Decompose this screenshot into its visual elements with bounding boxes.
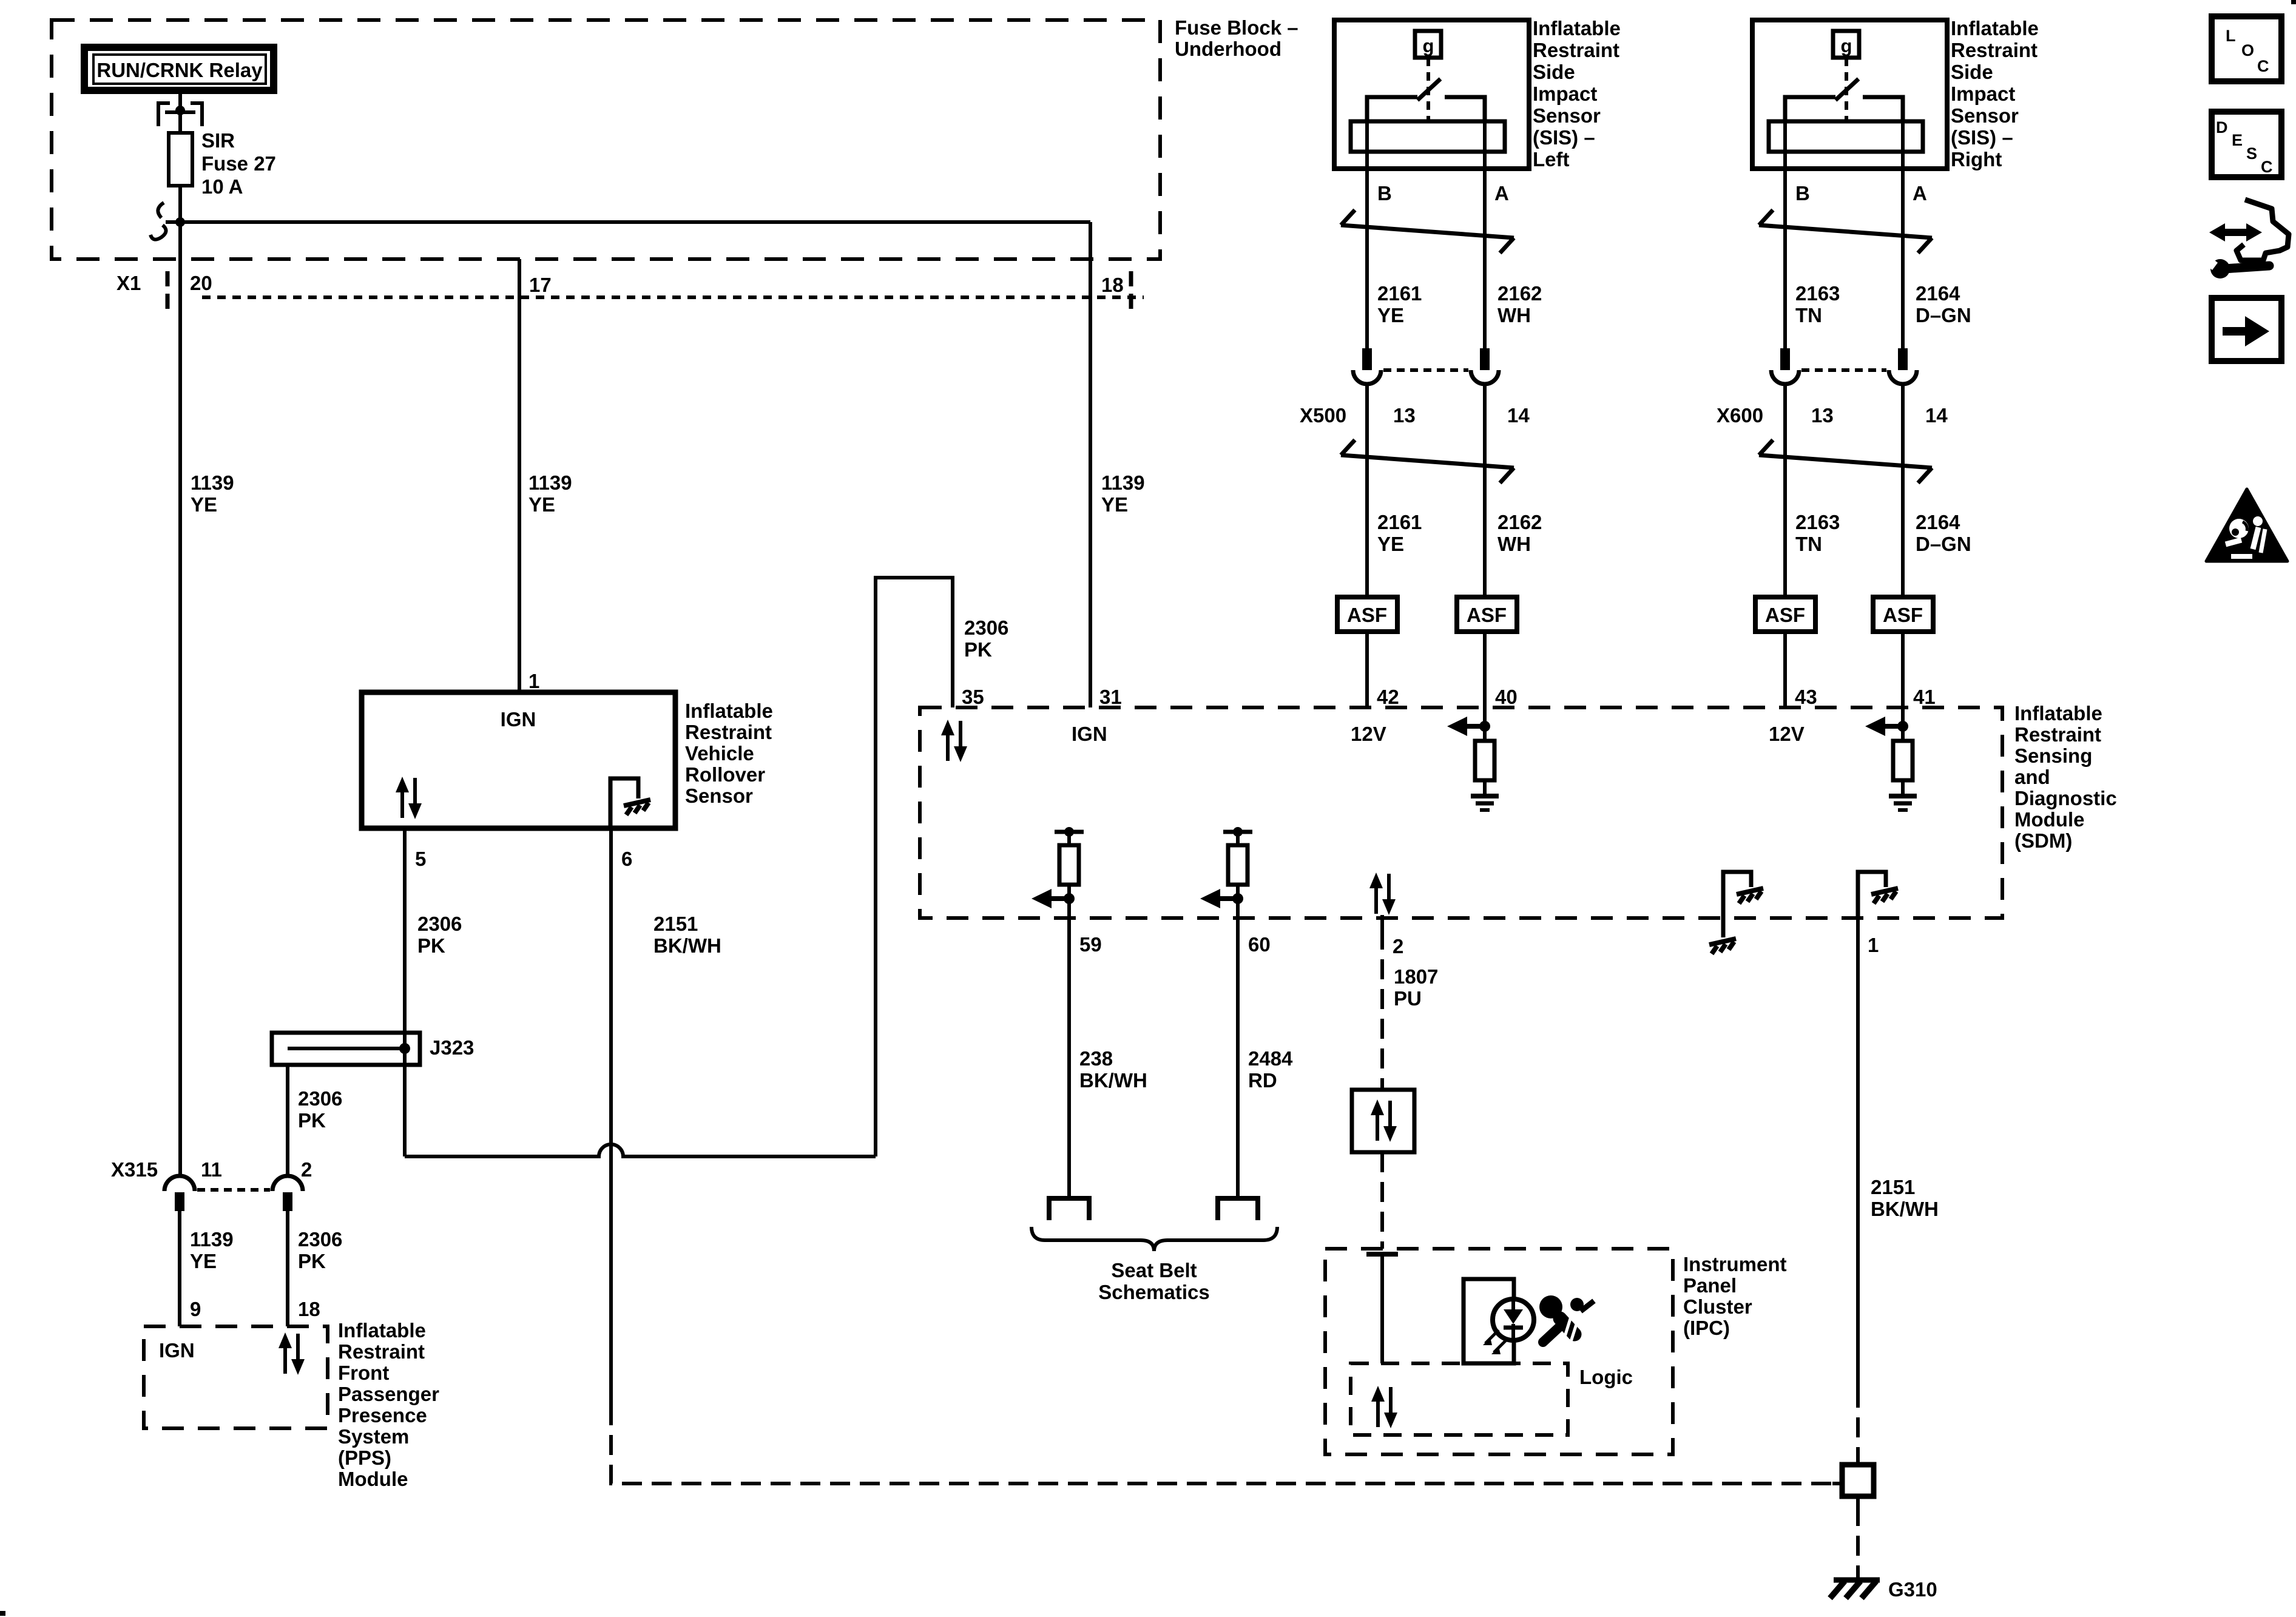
- svg-text:1139: 1139: [528, 471, 572, 494]
- svg-text:238: 238: [1079, 1047, 1113, 1070]
- svg-text:Passenger: Passenger: [338, 1383, 439, 1405]
- svg-text:TN: TN: [1795, 533, 1822, 555]
- svg-text:1807: 1807: [1394, 965, 1438, 988]
- svg-text:Inflatable: Inflatable: [2014, 702, 2102, 724]
- svg-text:Side: Side: [1951, 61, 1993, 83]
- svg-text:C: C: [2257, 57, 2269, 75]
- wire 2151 BK/WH from pin 6: [611, 828, 1842, 1484]
- svg-text:Underhood: Underhood: [1175, 38, 1281, 60]
- X600 connector: [1717, 348, 1948, 427]
- svg-text:2164: 2164: [1916, 282, 1960, 305]
- node: junction dot: [175, 217, 185, 227]
- break symbol 1 left: [1341, 210, 1514, 253]
- svg-text:E: E: [2232, 131, 2243, 149]
- svg-text:ASF: ASF: [1347, 604, 1387, 626]
- svg-text:2: 2: [301, 1158, 312, 1181]
- svg-text:X500: X500: [1300, 404, 1346, 427]
- svg-text:Instrument: Instrument: [1683, 1253, 1787, 1275]
- svg-text:20: 20: [190, 272, 212, 294]
- label PPS: [338, 1319, 439, 1490]
- svg-text:Panel: Panel: [1683, 1274, 1737, 1297]
- wire 1807 PU dashed: [1382, 915, 1438, 1090]
- icon arrow wrench: [2200, 200, 2289, 279]
- svg-text:ASF: ASF: [1467, 604, 1507, 626]
- svg-text:Restraint: Restraint: [1533, 39, 1619, 61]
- svg-text:PK: PK: [298, 1109, 326, 1132]
- relay contact: [158, 94, 202, 133]
- svg-text:D–GN: D–GN: [1916, 533, 1971, 555]
- SIS left sensor box: [1334, 20, 1529, 348]
- svg-text:60: 60: [1248, 933, 1271, 956]
- IGN vehicle rollover sensor box: [362, 692, 675, 828]
- svg-text:Schematics: Schematics: [1098, 1281, 1209, 1303]
- svg-text:2151: 2151: [653, 913, 698, 935]
- svg-text:IGN: IGN: [501, 708, 536, 731]
- svg-text:YE: YE: [1377, 304, 1404, 326]
- SDM pin2 updown arrows: [1369, 873, 1396, 915]
- svg-text:C: C: [2261, 158, 2273, 176]
- wire 2306 PK horizontal to SDM pin 35: [405, 578, 953, 1156]
- svg-text:13: 13: [1393, 404, 1416, 427]
- svg-text:14: 14: [1925, 404, 1948, 427]
- svg-text:1139: 1139: [191, 471, 234, 494]
- svg-text:PK: PK: [964, 638, 992, 661]
- label SDM: [2014, 702, 2117, 852]
- svg-text:PK: PK: [298, 1250, 326, 1272]
- LED driver box: [1464, 1279, 1514, 1363]
- ASF shorting bar connector left pair: [1337, 597, 1517, 632]
- svg-text:g: g: [1841, 35, 1852, 56]
- pin 60 wire 2484 RD: [1218, 917, 1293, 1220]
- svg-text:IGN: IGN: [159, 1339, 195, 1362]
- svg-text:G310: G310: [1888, 1578, 1937, 1601]
- svg-text:Inflatable: Inflatable: [338, 1319, 426, 1342]
- junction J323: [272, 1033, 474, 1065]
- svg-text:Left: Left: [1533, 148, 1570, 170]
- fuse block underhood dashed box: [52, 20, 1160, 259]
- svg-text:6: 6: [621, 848, 632, 870]
- svg-text:Fuse Block –: Fuse Block –: [1175, 16, 1298, 39]
- svg-text:2163: 2163: [1795, 282, 1840, 305]
- svg-text:Inflatable: Inflatable: [685, 700, 773, 722]
- break symbol 2 left: [1341, 440, 1514, 483]
- svg-text:Module: Module: [338, 1468, 408, 1490]
- svg-text:18: 18: [298, 1298, 320, 1320]
- svg-text:5: 5: [415, 848, 426, 870]
- svg-text:Inflatable: Inflatable: [1951, 17, 2039, 39]
- svg-text:14: 14: [1507, 404, 1530, 427]
- svg-text:2151: 2151: [1871, 1176, 1915, 1198]
- svg-text:2: 2: [1393, 935, 1403, 957]
- svg-text:13: 13: [1811, 404, 1834, 427]
- svg-text:Sensor: Sensor: [1533, 104, 1601, 127]
- svg-text:PU: PU: [1394, 987, 1422, 1010]
- wire 2306 PK X315 to PPS: [288, 1211, 342, 1326]
- wire 1139 YE X315 to PPS: [180, 1211, 234, 1326]
- icon arrow box: [2212, 298, 2281, 361]
- svg-text:Inflatable: Inflatable: [1533, 17, 1621, 39]
- svg-text:2162: 2162: [1497, 282, 1542, 305]
- svg-text:Sensor: Sensor: [685, 785, 753, 807]
- svg-text:12V: 12V: [1769, 723, 1805, 745]
- SDM pin 1 ground bracket: [1858, 872, 1898, 956]
- svg-text:41: 41: [1913, 686, 1936, 708]
- SDM case ground: [1709, 872, 1763, 954]
- svg-text:2306: 2306: [964, 616, 1008, 639]
- svg-text:2164: 2164: [1916, 511, 1960, 533]
- svg-text:Cluster: Cluster: [1683, 1295, 1752, 1318]
- SDM updown arrows at pin35: [941, 720, 967, 762]
- svg-text:WH: WH: [1497, 304, 1531, 326]
- svg-text:Restraint: Restraint: [2014, 723, 2101, 746]
- wire labels 2161 YE / 2162 WH lower: [1377, 511, 1542, 555]
- wire 2306 PK J323 to X315: [288, 1065, 342, 1176]
- svg-text:2306: 2306: [298, 1087, 342, 1110]
- svg-text:RD: RD: [1248, 1069, 1277, 1092]
- svg-text:Right: Right: [1951, 148, 2002, 170]
- svg-text:31: 31: [1099, 686, 1122, 708]
- svg-text:40: 40: [1495, 686, 1518, 708]
- break symbol 2 right: [1759, 440, 1932, 483]
- pin 59 wire 238 BK/WH: [1049, 917, 1147, 1220]
- svg-text:Impact: Impact: [1951, 83, 2015, 105]
- svg-text:X315: X315: [111, 1158, 158, 1181]
- svg-text:B: B: [1377, 182, 1392, 204]
- page artifact mark top-right: [2291, 0, 2296, 4]
- ground G310: [1830, 1578, 1937, 1601]
- seat belt brace: [1032, 1227, 1277, 1251]
- svg-text:1139: 1139: [1101, 471, 1145, 494]
- svg-text:Rollover: Rollover: [685, 763, 765, 786]
- svg-text:2163: 2163: [1795, 511, 1840, 533]
- wire 1139 YE pin 17: [518, 259, 521, 690]
- svg-text:D: D: [2216, 118, 2228, 137]
- svg-text:Sensor: Sensor: [1951, 104, 2019, 127]
- svg-text:2484: 2484: [1248, 1047, 1293, 1070]
- svg-text:A: A: [1913, 182, 1927, 204]
- wire 2306 PK pin5 to J323 to corner: [403, 828, 407, 1156]
- svg-text:17: 17: [529, 274, 552, 296]
- svg-text:RUN/CRNK Relay: RUN/CRNK Relay: [96, 59, 263, 81]
- wire labels 2161 YE / 2162 WH upper: [1377, 282, 1542, 326]
- entry bar at IPC: [1366, 1252, 1398, 1257]
- wires below X500: [1365, 384, 1369, 597]
- svg-text:System: System: [338, 1425, 409, 1448]
- svg-text:Sensing: Sensing: [2014, 744, 2092, 767]
- svg-text:SIR: SIR: [201, 129, 235, 152]
- svg-text:2162: 2162: [1497, 511, 1542, 533]
- wire: fuse to junction: [178, 186, 182, 222]
- svg-text:Restraint: Restraint: [338, 1340, 425, 1363]
- svg-text:(SIS) –: (SIS) –: [1533, 126, 1595, 149]
- relay K: RUN/CRNK Relay: [84, 47, 274, 90]
- icon LOC: [2212, 16, 2281, 81]
- LED light arrows: [1483, 1330, 1507, 1354]
- label: Fuse Block Underhood: [1175, 16, 1298, 60]
- svg-text:11: 11: [201, 1158, 222, 1181]
- svg-text:B: B: [1795, 182, 1810, 204]
- svg-text:O: O: [2241, 41, 2254, 59]
- wire 1139 YE pin 20: [178, 222, 182, 1176]
- X500 connector: [1300, 348, 1530, 427]
- page artifact mark bottom-left: [0, 1611, 5, 1616]
- svg-text:ASF: ASF: [1883, 604, 1923, 626]
- svg-text:Side: Side: [1533, 61, 1575, 83]
- wire labels 2163 TN / 2164 D-GN upper: [1795, 282, 1971, 326]
- svg-text:g: g: [1423, 35, 1434, 56]
- icon DESC: [2212, 112, 2281, 177]
- svg-text:BK/WH: BK/WH: [1079, 1069, 1147, 1092]
- SDM dashed box: [920, 707, 2002, 918]
- svg-text:Logic: Logic: [1579, 1366, 1633, 1388]
- svg-text:S: S: [2246, 144, 2257, 163]
- svg-text:Presence: Presence: [338, 1404, 427, 1426]
- svg-text:X1: X1: [116, 272, 141, 294]
- svg-text:YE: YE: [1101, 493, 1128, 516]
- svg-text:35: 35: [962, 686, 984, 708]
- PPS module dashed box: [144, 1326, 328, 1428]
- SIS right sensor box: [1752, 20, 1947, 348]
- svg-text:TN: TN: [1795, 304, 1822, 326]
- svg-text:1139: 1139: [190, 1228, 234, 1251]
- svg-text:A: A: [1494, 182, 1509, 204]
- svg-text:(IPC): (IPC): [1683, 1317, 1730, 1339]
- svg-text:Module: Module: [2014, 808, 2084, 831]
- svg-text:12V: 12V: [1351, 723, 1386, 745]
- svg-text:YE: YE: [1377, 533, 1404, 555]
- svg-text:BK/WH: BK/WH: [1871, 1198, 1939, 1220]
- svg-text:59: 59: [1079, 933, 1102, 956]
- svg-text:1: 1: [528, 670, 539, 692]
- svg-text:(SDM): (SDM): [2014, 829, 2072, 852]
- fuse F: SIR Fuse 27 10A: [169, 129, 276, 198]
- label rollover sensor: [685, 700, 773, 807]
- wires ASF to SDM right: [1783, 632, 1787, 707]
- X315 connector: [111, 1158, 312, 1211]
- hook symbol at junction: [150, 203, 166, 240]
- label SIS left: [1533, 17, 1621, 170]
- pin 40 internal: dot arrow resistor ground: [1447, 717, 1499, 810]
- LED indicator: [1493, 1299, 1534, 1340]
- svg-text:J323: J323: [430, 1036, 474, 1059]
- svg-text:and: and: [2014, 766, 2050, 788]
- svg-text:Front: Front: [338, 1362, 389, 1384]
- svg-text:2161: 2161: [1377, 511, 1422, 533]
- svg-text:Diagnostic: Diagnostic: [2014, 787, 2117, 809]
- svg-text:43: 43: [1795, 686, 1817, 708]
- wire 2151 BK/WH from SDM pin 1: [1858, 917, 1939, 1455]
- svg-text:D–GN: D–GN: [1916, 304, 1971, 326]
- svg-text:ASF: ASF: [1765, 604, 1805, 626]
- svg-text:WH: WH: [1497, 533, 1531, 555]
- icon caution triangle: [2206, 489, 2288, 561]
- label SIS right: [1951, 17, 2039, 170]
- pin 41 internal: dot arrow resistor ground: [1865, 717, 1917, 810]
- svg-text:1: 1: [1868, 934, 1879, 956]
- svg-text:IGN: IGN: [1072, 723, 1107, 745]
- svg-text:2161: 2161: [1377, 282, 1422, 305]
- wire 1139 YE pin 18: [1089, 222, 1092, 707]
- svg-text:Fuse 27: Fuse 27: [201, 152, 276, 175]
- svg-text:(PPS): (PPS): [338, 1447, 391, 1469]
- wire 1807 to IPC: [1380, 1152, 1384, 1249]
- SDM pin labels: [962, 686, 1936, 708]
- svg-text:BK/WH: BK/WH: [653, 934, 721, 957]
- svg-text:YE: YE: [190, 1250, 217, 1272]
- svg-text:Impact: Impact: [1533, 83, 1597, 105]
- svg-text:Vehicle: Vehicle: [685, 742, 754, 765]
- svg-text:L: L: [2226, 27, 2236, 45]
- Logic dashed box: [1351, 1363, 1568, 1435]
- wires ASF to SDM: [1365, 632, 1369, 707]
- pin 60 internal resistor arrow: [1200, 827, 1252, 917]
- svg-text:2306: 2306: [298, 1228, 342, 1251]
- svg-text:Restraint: Restraint: [685, 721, 772, 743]
- Logic updown arrows: [1371, 1386, 1397, 1428]
- svg-text:9: 9: [190, 1298, 201, 1320]
- splice square: [1832, 1455, 1874, 1506]
- X1 connector row: [116, 271, 1144, 309]
- ASF shorting bar connector right pair: [1755, 597, 1933, 632]
- svg-text:42: 42: [1377, 686, 1399, 708]
- svg-text:18: 18: [1101, 274, 1124, 296]
- svg-text:Restraint: Restraint: [1951, 39, 2038, 61]
- svg-text:PK: PK: [417, 934, 445, 957]
- svg-text:2306: 2306: [417, 913, 462, 935]
- svg-text:(SIS) –: (SIS) –: [1951, 126, 2013, 149]
- wire labels 2163 TN / 2164 D-GN lower: [1795, 511, 1971, 555]
- svg-text:YE: YE: [528, 493, 555, 516]
- wire: horizontal bus in fuse block: [166, 220, 1090, 224]
- wires below X600: [1783, 384, 1787, 597]
- break symbol 1 right: [1759, 210, 1932, 253]
- svg-text:Seat Belt: Seat Belt: [1111, 1259, 1197, 1281]
- svg-text:YE: YE: [191, 493, 217, 516]
- airbag warning pictogram: [1539, 1295, 1594, 1343]
- label IPC: [1683, 1253, 1787, 1339]
- inline connector box on 1807: [1352, 1090, 1414, 1152]
- IPC dashed box: [1325, 1249, 1673, 1454]
- pin 59 internal resistor arrow: [1032, 827, 1084, 917]
- wire to G310: [1856, 1506, 1860, 1579]
- svg-text:X600: X600: [1717, 404, 1763, 427]
- svg-text:10 A: 10 A: [201, 175, 243, 198]
